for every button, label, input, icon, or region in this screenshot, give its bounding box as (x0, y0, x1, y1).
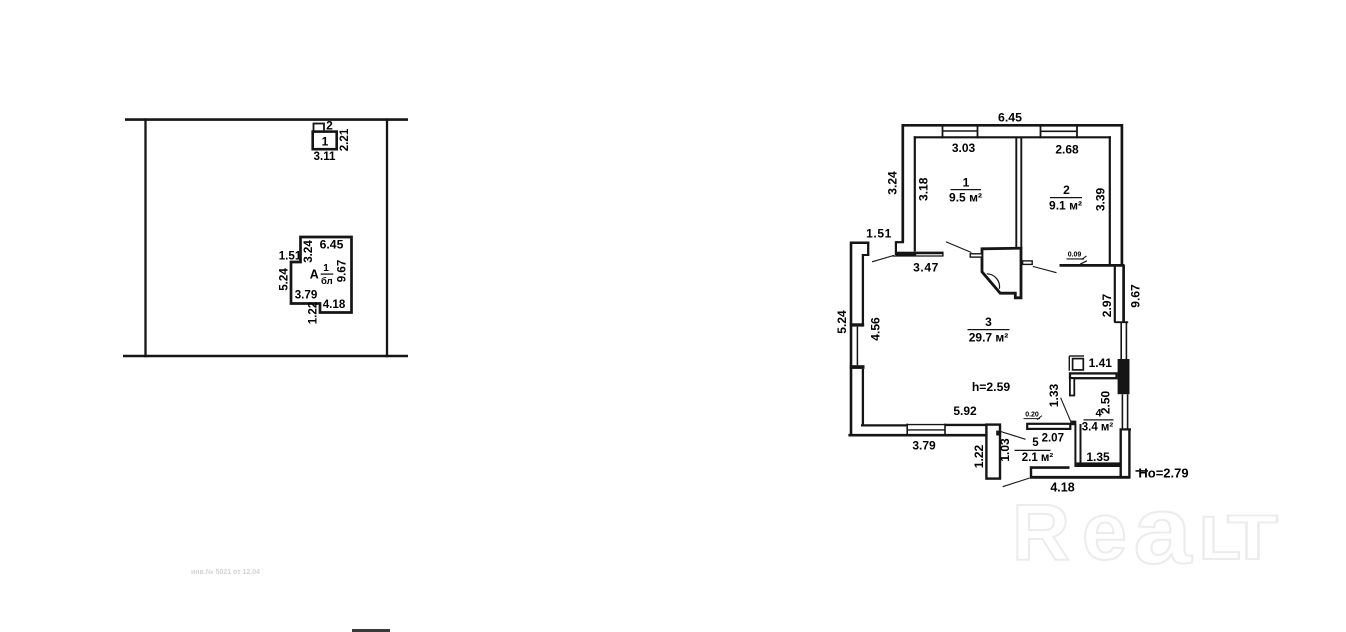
svg-text:2.1 м²: 2.1 м² (1022, 452, 1054, 464)
svg-text:2: 2 (1063, 183, 1070, 197)
svg-text:5: 5 (1032, 437, 1039, 449)
svg-text:2.97: 2.97 (1100, 293, 1114, 317)
svg-text:4.18: 4.18 (323, 298, 346, 311)
svg-text:1.51: 1.51 (866, 227, 892, 241)
svg-text:3.18: 3.18 (917, 177, 931, 201)
svg-text:3.03: 3.03 (952, 141, 976, 155)
svg-text:6.45: 6.45 (998, 111, 1022, 125)
svg-text:1.51: 1.51 (279, 249, 302, 262)
svg-text:1: 1 (323, 263, 329, 274)
svg-text:2: 2 (326, 119, 333, 133)
svg-text:А: А (310, 267, 319, 281)
svg-text:3.39: 3.39 (1093, 187, 1107, 211)
svg-text:инв.№ 5021 от 12.04: инв.№ 5021 от 12.04 (191, 568, 260, 576)
svg-text:0.20: 0.20 (1025, 412, 1039, 419)
svg-text:9.67: 9.67 (336, 260, 349, 283)
svg-text:1: 1 (963, 176, 970, 190)
svg-text:9.5 м²: 9.5 м² (949, 191, 982, 205)
svg-text:4.18: 4.18 (1050, 481, 1074, 495)
svg-text:29.7 м²: 29.7 м² (969, 331, 1009, 345)
svg-text:R: R (1012, 488, 1070, 577)
svg-text:1.35: 1.35 (1086, 450, 1110, 464)
svg-text:3: 3 (985, 315, 992, 329)
svg-text:6.45: 6.45 (320, 237, 344, 251)
svg-text:5.92: 5.92 (953, 404, 977, 418)
svg-text:5.24: 5.24 (278, 268, 291, 291)
svg-text:1.22: 1.22 (972, 444, 986, 468)
svg-text:5.24: 5.24 (835, 310, 849, 334)
svg-text:2.68: 2.68 (1055, 143, 1079, 157)
svg-text:1.33: 1.33 (1047, 383, 1061, 407)
svg-text:3.24: 3.24 (302, 240, 315, 263)
svg-text:T: T (1227, 503, 1278, 573)
svg-text:1: 1 (322, 135, 329, 149)
svg-text:3.79: 3.79 (295, 288, 318, 301)
svg-text:3.11: 3.11 (314, 150, 336, 163)
svg-text:0.09: 0.09 (1068, 252, 1082, 259)
svg-text:9.1 м²: 9.1 м² (1049, 199, 1082, 213)
svg-text:1.03: 1.03 (998, 438, 1012, 462)
svg-text:бл: бл (321, 276, 333, 287)
svg-text:1.41: 1.41 (1089, 356, 1113, 370)
svg-text:h=2.59: h=2.59 (972, 380, 1011, 394)
svg-text:3.4 м²: 3.4 м² (1082, 422, 1114, 434)
svg-text:a: a (1134, 477, 1193, 584)
svg-text:2.21: 2.21 (338, 128, 351, 151)
svg-text:3.47: 3.47 (913, 261, 939, 275)
svg-text:2.07: 2.07 (1042, 433, 1064, 445)
svg-text:4.56: 4.56 (869, 317, 883, 341)
svg-text:2.50: 2.50 (1099, 390, 1113, 414)
svg-text:Но=2.79: Но=2.79 (1138, 466, 1188, 481)
svg-text:3.79: 3.79 (912, 439, 936, 453)
svg-text:e: e (1082, 487, 1127, 577)
svg-text:9.67: 9.67 (1128, 284, 1142, 308)
svg-text:1.22: 1.22 (307, 302, 320, 325)
svg-text:3.24: 3.24 (885, 171, 899, 195)
